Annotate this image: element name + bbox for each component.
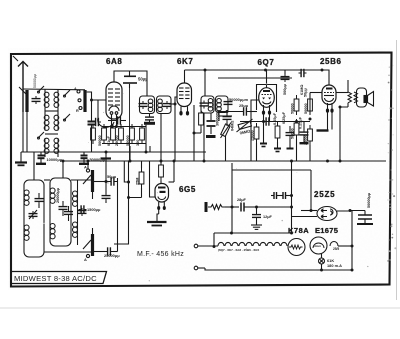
- wire 6K7 grid left: [175, 97, 178, 161]
- electrolytic 28uF: [225, 203, 257, 212]
- border frame: [11, 53, 392, 287]
- mid cap col right: [300, 122, 309, 144]
- switch arrow d: [38, 132, 45, 139]
- osc bottom cap wires: [93, 251, 106, 253]
- svg-text:A: A: [84, 165, 87, 170]
- svg-text:50000: 50000: [291, 103, 295, 114]
- ground bar below padder: [206, 135, 216, 138]
- cap 10000uuF on bus: [36, 152, 46, 164]
- junction after 28uF: [255, 206, 258, 209]
- 6Q7 plate lead to rail: [266, 70, 268, 88]
- switch arrow c: [64, 114, 71, 121]
- switch arrow a: [38, 86, 45, 93]
- tube 6Q7: [259, 88, 275, 121]
- drop 25B6 bias: [309, 93, 311, 115]
- junction AVC branch: [127, 181, 130, 184]
- grid resistor a: [294, 95, 299, 115]
- junction x194: [193, 132, 196, 135]
- svg-text:300: 300: [136, 140, 140, 146]
- svg-text:6K7: 6K7: [177, 57, 193, 66]
- lamp E1675: [310, 237, 327, 254]
- wire antenna down: [22, 112, 24, 152]
- svg-text:50000: 50000: [291, 128, 295, 139]
- wire transformer bottom elbow: [340, 107, 348, 161]
- pot bottom drop: [225, 136, 227, 161]
- IF1 primary coil: [148, 99, 153, 112]
- 25B6 grid lead: [322, 70, 329, 85]
- antenna coil column B: [54, 89, 59, 157]
- tube 25Z5 rectifier: [317, 207, 337, 221]
- vertical drop IF2 a: [203, 113, 205, 161]
- pot top wire: [219, 115, 232, 117]
- resistor below rail a: [254, 123, 259, 161]
- junction pin b: [115, 125, 118, 128]
- IF transformer 2 secondary box: [216, 96, 229, 113]
- IF1 bottom cap to ground: [145, 114, 154, 123]
- ballast K78A: [288, 239, 305, 256]
- col2 bottom to bus: [309, 145, 311, 161]
- osc terminal A bottom: [84, 254, 90, 262]
- IF2 primary cap: [200, 101, 209, 109]
- 12uF cap to ground: [251, 207, 262, 229]
- grid resistor b: [308, 95, 313, 115]
- big padder cap below IF2: [207, 113, 216, 134]
- svg-text:500μμ: 500μμ: [283, 83, 287, 95]
- junction cap pair: [290, 194, 293, 197]
- branch col1 to cap: [297, 121, 305, 123]
- IF2 cap right: [224, 99, 233, 107]
- col1 bottom to bus: [296, 139, 298, 161]
- junction AC terminal: [213, 245, 216, 248]
- osc terminal A top: [84, 165, 90, 173]
- resistor row under 6A8: r5: [140, 124, 145, 144]
- diode load wire right: [249, 111, 257, 113]
- cathode bypass cap: [108, 116, 126, 124]
- svg-text:25B6: 25B6: [320, 57, 342, 66]
- cap 500uu to ground: [281, 70, 290, 82]
- junction lamp bottom: [320, 269, 323, 272]
- output transformer primary: [348, 80, 358, 107]
- page bottom edge line: [0, 307, 400, 309]
- osc feed x106: [105, 152, 107, 192]
- coil hump 25/5: [330, 242, 339, 252]
- AVC return wire left of 6G5: [129, 161, 142, 198]
- svg-text:0.05μF: 0.05μF: [273, 112, 277, 125]
- tube 25B6: [322, 85, 336, 118]
- vertical wire x291.5: [291, 161, 293, 233]
- junction heater drop: [290, 232, 293, 235]
- osc feed x63: [62, 161, 64, 178]
- second bus: [120, 151, 206, 153]
- svg-text:12μF: 12μF: [263, 215, 273, 219]
- svg-text:50μμ: 50μμ: [107, 174, 117, 179]
- AC terminal top: [194, 244, 218, 248]
- junction chain: [290, 206, 293, 209]
- pilot lamp: [319, 254, 325, 264]
- osc box2 cap a: [59, 201, 68, 216]
- osc vertical feeds to main: [33, 152, 35, 180]
- coil link top: [45, 110, 58, 112]
- osc box2 cap b: [64, 206, 73, 221]
- cap right of 6Q7: [286, 126, 295, 149]
- wire gang2 to 6A8 grid: [87, 92, 106, 100]
- vertical drop IF1 b: [160, 114, 162, 162]
- junction heater right: [351, 245, 354, 248]
- coupling cap top: [299, 69, 307, 77]
- ground bus left: [21, 151, 206, 153]
- second top rail: [218, 77, 292, 79]
- svg-text:6G5: 6G5: [179, 185, 196, 194]
- bias resistor 6A8 left: [91, 124, 96, 144]
- osc coil column 3 upper: [73, 180, 78, 245]
- paper noise texture: [8, 48, 392, 290]
- drop x279: [274, 148, 281, 150]
- wire 6G5 feed: [160, 161, 162, 165]
- wire antenna top rail: [23, 88, 85, 91]
- osc right vertical: [117, 178, 119, 252]
- vertical drop IF1 a: [145, 125, 147, 152]
- IF1 secondary coil: [158, 99, 163, 112]
- third bus right: [232, 169, 311, 171]
- junction anode feed: [310, 209, 313, 212]
- resistor row top rail: [102, 126, 146, 128]
- title block: [11, 272, 107, 284]
- IF transformer 1 primary box: [140, 96, 155, 114]
- cap 50uu osc: [109, 177, 117, 185]
- svg-text:Dmm: Dmm: [314, 244, 322, 248]
- 6G5 wire loop left: [150, 161, 156, 197]
- 6G5 series resistor: [139, 161, 144, 198]
- box2 cap to grid wire: [169, 103, 175, 105]
- osc wiring bottom: [44, 251, 93, 253]
- cap 25000uu osc: [105, 247, 113, 255]
- svg-text:(6Q7 · 6K7 · 6A8 · 25B6 · 6G5: (6Q7 · 6K7 · 6A8 · 25B6 · 6G5: [218, 248, 260, 252]
- speaker frame loop: [357, 88, 367, 107]
- oscillator coil box 1: [24, 180, 44, 257]
- junction rail a: [262, 120, 265, 123]
- svg-text:50μμ: 50μμ: [304, 87, 308, 97]
- tube 6A8: [106, 82, 122, 127]
- antenna coil column A: [44, 89, 49, 157]
- scan speckles right edge: [43, 65, 396, 281]
- page right edge speckle: [396, 40, 398, 300]
- 6Q7 wire loop: [257, 85, 277, 113]
- small cap in antenna block: [32, 96, 41, 104]
- junction right of 25Z5: [349, 209, 352, 212]
- osc trimmer arrow top: [83, 175, 91, 184]
- junction 340 bus: [339, 160, 342, 163]
- AVC cap: [223, 112, 232, 127]
- svg-text:6Q7: 6Q7: [258, 58, 275, 67]
- AC terminal bottom: [194, 266, 205, 270]
- antenna tuning gang bar 1: [25, 90, 28, 112]
- AVC vertical from grid cap: [129, 88, 131, 161]
- osc box1 trimmer: [29, 210, 38, 219]
- svg-text:50μμ: 50μμ: [138, 77, 148, 82]
- svg-text:A: A: [74, 87, 77, 91]
- bottom return wire: [205, 268, 352, 270]
- IF1 ground bar: [144, 122, 155, 125]
- B plus drop to rectifier anode: [310, 170, 312, 211]
- wire 6A8 grid loop: [98, 100, 114, 127]
- svg-text:25μμ: 25μμ: [239, 103, 249, 108]
- osc col3 cap: [78, 208, 87, 216]
- wire to 25Z5 cathode: [257, 206, 292, 208]
- heater top return wire: [214, 232, 292, 234]
- svg-text:MIDWEST 8-38 AC/DC: MIDWEST 8-38 AC/DC: [14, 274, 97, 283]
- osc box1 coil upper: [24, 190, 29, 205]
- osc coil column 3 lower: [73, 222, 78, 237]
- speaker field / output jack bar: [205, 202, 208, 212]
- switch terminal a: [74, 87, 80, 93]
- svg-text:50000: 50000: [98, 135, 102, 146]
- svg-text:50000μμ: 50000μμ: [367, 192, 371, 208]
- 6G5 ground: [147, 210, 167, 226]
- svg-text:04ΜΩ: 04ΜΩ: [231, 121, 235, 131]
- vertical from bus3 to filter junction: [231, 170, 233, 233]
- oscillator gang bar top: [91, 170, 94, 192]
- oscillator gang bar bottom: [91, 234, 94, 256]
- junction transformer bottom: [339, 106, 342, 109]
- IF transformer 1 secondary box: [157, 96, 172, 114]
- resistor 0.5M diagonal: [237, 119, 253, 132]
- junction diode wire b: [226, 110, 229, 113]
- svg-text:0.25μF: 0.25μF: [282, 111, 286, 124]
- osc wiring box2 to gang: [71, 179, 93, 181]
- 6G5 grid resistor: [159, 161, 164, 181]
- IF transformer 2 primary box: [201, 96, 214, 113]
- osc cap50 wires: [93, 181, 109, 183]
- drop x262: [263, 122, 265, 144]
- volume control potentiometer: [221, 123, 232, 139]
- svg-text:K78A: K78A: [288, 226, 309, 235]
- top rail AVC: [185, 69, 323, 71]
- osc trimmer arrow bottom: [83, 240, 91, 249]
- gang1 bottom lead: [26, 112, 28, 152]
- switch terminal c: [76, 107, 82, 114]
- cap 1500uu osc: [79, 205, 87, 213]
- svg-text:50000: 50000: [304, 103, 308, 114]
- IF2 primary coil: [208, 99, 213, 112]
- 6A8 top cap lead: [114, 71, 147, 96]
- grid cap capacitor above 6A8: [123, 71, 137, 88]
- vertical drops to bus row2: [129, 146, 131, 161]
- svg-text:1500μμ: 1500μμ: [87, 207, 101, 212]
- 25Z5 anode wires: [301, 210, 317, 212]
- junction grid feed: [174, 103, 177, 106]
- 25Z5 output wire: [337, 210, 365, 213]
- osc gang2 upper lead: [92, 228, 94, 234]
- svg-text:25Z5: 25Z5: [314, 190, 335, 199]
- resistor row under 6A8: r3: [119, 124, 124, 144]
- switch arrow b: [64, 90, 71, 97]
- svg-text:50000μμ: 50000μμ: [33, 74, 37, 88]
- junction heater return: [230, 232, 233, 235]
- switch terminal b: [78, 99, 81, 102]
- resistor row under 6A8: r2: [111, 124, 116, 144]
- svg-text:28μF: 28μF: [237, 198, 247, 202]
- resistor below IF2: [199, 109, 204, 133]
- svg-text:0.25μF: 0.25μF: [299, 116, 303, 129]
- E1675 to right wire: [338, 245, 352, 247]
- svg-text:180 m.A: 180 m.A: [327, 263, 342, 268]
- ground left: [15, 152, 27, 165]
- osc feed gang top: [87, 161, 89, 169]
- junction col2: [309, 118, 312, 121]
- tube 6G5 magic eye: [155, 184, 169, 210]
- cap 50000uu on bus: [79, 152, 89, 164]
- vertical drop IF2 b: [218, 113, 220, 122]
- cap mid right osc: [102, 192, 111, 203]
- 6K7 top cap lead: [184, 70, 186, 83]
- wire 25B6 plate to transformer: [336, 92, 348, 94]
- 25B6 cathode ground bar: [317, 118, 333, 131]
- osc box1 coil lower: [24, 225, 29, 240]
- diode cap: [241, 107, 249, 115]
- svg-text:25Μ: 25Μ: [136, 178, 140, 185]
- antenna: [13, 56, 28, 112]
- AVC branch vertical x124: [124, 161, 128, 182]
- RF tuning gang bar 2: [83, 90, 86, 112]
- cathode cap 6A8: [93, 118, 101, 126]
- drop x150: [149, 146, 151, 152]
- junction filter: [231, 206, 234, 209]
- main ground bus: [60, 160, 386, 162]
- coil link mid: [45, 133, 58, 135]
- junction osc cap50: [105, 180, 108, 183]
- plate load resistor 6Q7: [275, 122, 280, 148]
- resistor row under 6A8: r1: [102, 124, 107, 144]
- lamp to bottom wire: [321, 264, 323, 270]
- drop x251: [250, 121, 252, 161]
- gang2 coupling cap: [88, 100, 96, 152]
- svg-text:25/5: 25/5: [333, 247, 339, 251]
- stub resistor to x194: [194, 132, 201, 134]
- IF2 feed wire from 6K7 top: [204, 70, 206, 96]
- filter electrolytic 50000uu: [357, 211, 373, 225]
- svg-text:25000μμ: 25000μμ: [104, 253, 120, 258]
- right vertical to bottom loop: [351, 211, 353, 271]
- osc wiring top: [44, 179, 50, 181]
- cap pair top right of filter: [271, 192, 292, 199]
- resistor row under 6A8: r4: [130, 124, 135, 144]
- resistor 25000 col2: [308, 125, 313, 145]
- filter resistor zigzag: [208, 205, 225, 210]
- svg-text:20000μμ: 20000μμ: [56, 187, 60, 203]
- hanging ground bar x106: [101, 157, 112, 159]
- junction diode wire: [218, 110, 221, 113]
- svg-text:M.F.- 456 kHz: M.F.- 456 kHz: [137, 251, 184, 258]
- junction x291.5 bus: [290, 160, 293, 163]
- in-rail cap: [264, 117, 272, 125]
- osc box2 coil lower: [50, 224, 55, 239]
- svg-text:R: R: [76, 109, 79, 113]
- grid resistor a2: [294, 119, 299, 139]
- IF2 secondary coil: [217, 99, 222, 112]
- vertical x194: [193, 105, 195, 161]
- 25B6 screen feed left: [310, 92, 322, 94]
- osc box1 cap: [35, 193, 44, 208]
- heater chain bobbins: [218, 242, 287, 246]
- svg-text:6A8: 6A8: [106, 57, 122, 66]
- drop to AC terminal junction: [213, 233, 215, 247]
- osc box2 coil upper: [50, 188, 55, 203]
- 6G5 wire right elbow: [169, 181, 175, 183]
- AVC return down to osc: [114, 198, 129, 245]
- speaker: [364, 92, 374, 107]
- svg-text:E1675: E1675: [315, 226, 338, 235]
- svg-text:A: A: [84, 257, 87, 262]
- IF1 primary cap: [139, 101, 148, 109]
- trimmer arrow to gang1: [19, 87, 26, 94]
- diode load wire: [219, 111, 241, 113]
- svg-text:25000: 25000: [115, 135, 119, 146]
- oscillator coil box 2: [50, 178, 71, 246]
- wire 6Q7 grid left: [251, 100, 259, 121]
- svg-text:0.1μF: 0.1μF: [107, 135, 111, 146]
- tube 6K7: [177, 83, 192, 115]
- IF1 secondary cap: [163, 101, 172, 109]
- misc verticals main section: [173, 161, 175, 182]
- junction pin a: [110, 125, 113, 128]
- junction AVC return: [127, 196, 130, 199]
- osc gang1 lower lead: [92, 192, 94, 199]
- right B plus rail: [240, 121, 310, 123]
- junction grid wire: [90, 99, 93, 102]
- resistor row bottom rail: [102, 143, 146, 145]
- osc cap50 right wire: [117, 181, 118, 183]
